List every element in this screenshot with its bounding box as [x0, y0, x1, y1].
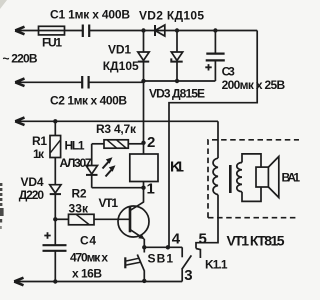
- wire SB1 bottom lead: [143, 270, 145, 281]
- dashed enclosure around output unit: [208, 140, 299, 218]
- svg-text:1: 1: [147, 181, 155, 198]
- svg-text:АЛ307: АЛ307: [60, 156, 92, 170]
- diode VD2 (cathode left, on top rail): [155, 25, 165, 36]
- junction node C4 on bottom rail: [53, 279, 57, 283]
- wire HL1 cathode lead: [91, 175, 93, 188]
- svg-text:33к: 33к: [69, 202, 89, 216]
- svg-text:x 16В: x 16В: [72, 267, 102, 281]
- wire VD3 anode lead: [176, 31, 178, 53]
- svg-text:SB1: SB1: [148, 252, 174, 266]
- wire top mains rail, arrow to C1: [15, 30, 83, 32]
- wire third rail, arrow to transformer primary corner: [15, 120, 218, 122]
- zener diode VD3: [171, 52, 182, 62]
- wire rectifier output rail C2 to C3 bottom: [89, 81, 216, 82]
- mains terminal arrow (bottom line of ~220V input): [15, 79, 24, 87]
- junction node HL1 to collector wire: [141, 186, 145, 190]
- wire rectified node down to relay K1 pin 2: [143, 81, 145, 154]
- wire R2 to VT1 base: [94, 218, 129, 220]
- capacitor C1: [83, 25, 89, 38]
- wire VD1 cathode lead: [143, 62, 145, 81]
- wire SB1 top lead: [143, 247, 145, 252]
- wire VD3 cathode lead: [176, 62, 178, 81]
- svg-text:C2 1мк x 400В: C2 1мк x 400В: [50, 94, 127, 108]
- LED HL1: [86, 166, 98, 175]
- wire contact 4 leg of K1.1: [181, 247, 183, 257]
- wire C3 top lead: [214, 31, 216, 54]
- resistor R1: [50, 136, 61, 158]
- svg-text:C3: C3: [222, 65, 236, 79]
- capacitor C4 (electrolytic): [43, 245, 67, 251]
- svg-text:R1: R1: [32, 134, 47, 148]
- wire R3 right lead to node 2: [128, 143, 143, 145]
- diode VD1: [138, 52, 149, 62]
- terminal arrow of bottom rail: [14, 278, 23, 286]
- junction node VD1 anode on top rail: [141, 28, 145, 32]
- junction node VD1 cathode on output rail: [141, 79, 145, 83]
- svg-text:VT1 КТ815: VT1 КТ815: [227, 233, 285, 249]
- svg-text:Д220: Д220: [19, 188, 45, 202]
- svg-text:HL1: HL1: [65, 139, 85, 153]
- resistor R3: [104, 140, 128, 148]
- svg-text:VD1: VD1: [108, 42, 131, 56]
- junction node emitter row left: [142, 245, 146, 249]
- wire R1 bottom lead to VD4: [54, 158, 56, 185]
- svg-text:КД105: КД105: [103, 59, 139, 73]
- wire R3 left lead: [92, 143, 104, 145]
- svg-text:FU1: FU1: [42, 35, 62, 49]
- LED emission arrows of HL1: [103, 157, 116, 176]
- capacitor C3 (electrolytic): [206, 54, 225, 61]
- wire secondary top to speaker: [242, 154, 261, 167]
- push button SB1: [125, 255, 144, 271]
- relay contact blade K1.1: [182, 255, 192, 269]
- wire top rail, C1 to right corner: [89, 30, 257, 32]
- wire from top rail right corner down and left to contact 4 riser: [169, 31, 257, 248]
- svg-text:VD2 КД105: VD2 КД105: [139, 8, 204, 22]
- wire C4 bottom lead: [54, 251, 56, 282]
- junction node VD3 cathode on output rail: [175, 79, 179, 83]
- wire bottom common rail: [14, 281, 182, 283]
- transformer T1 primary winding: [213, 158, 218, 194]
- junction node SB1 on bottom rail: [142, 279, 146, 283]
- polarity plus sign of C4: [44, 232, 50, 238]
- wire HL1 anode lead: [91, 144, 93, 166]
- junction node VD3 anode on top rail: [175, 28, 179, 32]
- mains terminal arrow (top line of ~220V input): [15, 27, 24, 35]
- svg-text:2: 2: [147, 134, 155, 151]
- wire R1 top lead: [54, 121, 56, 135]
- svg-text:C1 1мк x 400В: C1 1мк x 400В: [50, 7, 130, 21]
- wire VD4 cathode down to C4: [54, 194, 56, 244]
- svg-text:4: 4: [172, 231, 181, 248]
- svg-text:VD3 Д815Е: VD3 Д815Е: [149, 87, 205, 101]
- capacitor C2: [82, 76, 88, 89]
- svg-text:5: 5: [199, 231, 207, 248]
- svg-text:470мк x: 470мк x: [70, 251, 108, 265]
- wire transformer primary bottom lead to contact 5: [196, 195, 218, 249]
- junction node R1 top on third rail: [53, 119, 57, 123]
- transistor VT1: [118, 202, 149, 239]
- resistor R2: [69, 214, 95, 225]
- diode VD4: [50, 185, 61, 194]
- svg-text:~ 220В: ~ 220В: [3, 51, 38, 65]
- wire K1 pin 1 down to VT1 collector: [143, 182, 145, 203]
- wire C3 bottom lead: [214, 60, 216, 81]
- wire VD4 node to R2: [55, 218, 68, 220]
- wire contact 3 leg of K1.1: [181, 270, 183, 282]
- polarity plus sign of C3: [205, 64, 211, 70]
- wire second mains rail, arrow to C2: [15, 81, 82, 83]
- relay coil K1: [130, 154, 158, 182]
- terminal arrow of third rail: [15, 118, 24, 126]
- transformer T1 secondary winding: [237, 163, 242, 192]
- wire transformer primary top lead: [217, 121, 219, 158]
- svg-text:VT1: VT1: [99, 196, 119, 210]
- junction node 2 (R3 to K1 feed): [141, 141, 145, 145]
- svg-text:K1.1: K1.1: [205, 258, 228, 272]
- wire VT1 emitter lead: [143, 239, 145, 248]
- transformer T1 core: [229, 165, 232, 193]
- wire emitter node to contact 4: [144, 246, 182, 248]
- fuse FU1: [39, 26, 65, 35]
- svg-text:C4: C4: [80, 233, 96, 247]
- svg-text:BA1: BA1: [282, 171, 301, 185]
- wire secondary bottom to speaker: [242, 187, 261, 201]
- svg-text:R3 4,7к: R3 4,7к: [96, 122, 137, 136]
- svg-text:R2: R2: [72, 187, 87, 201]
- junction node VD4-R2-C4: [53, 217, 57, 221]
- svg-text:K1: K1: [170, 159, 184, 176]
- svg-text:VD4: VD4: [21, 175, 44, 189]
- svg-text:200мк x 25В: 200мк x 25В: [222, 78, 286, 92]
- svg-text:1к: 1к: [33, 147, 45, 161]
- wire VD1 anode lead: [143, 31, 145, 53]
- wire HL1 to collector node: [92, 187, 144, 189]
- junction node emitter row at contact 4 riser: [166, 245, 170, 249]
- speaker BA1: [256, 157, 279, 198]
- wire contact 5 leg of K1.1: [196, 249, 200, 259]
- svg-text:3: 3: [184, 267, 192, 284]
- junction node C3 on top rail: [213, 28, 217, 32]
